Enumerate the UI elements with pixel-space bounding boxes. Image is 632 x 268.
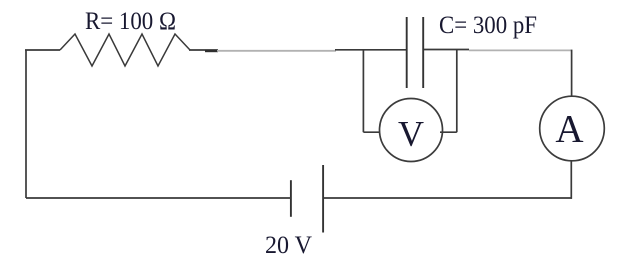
wire capacitor to right dark [424, 49, 469, 51]
wire voltmeter right stub [440, 131, 457, 133]
svg-text:A: A [555, 108, 583, 151]
svg-text:20 V: 20 V [265, 232, 312, 259]
wire right vertical lower [570, 161, 572, 199]
voltmeter V1 circle [380, 99, 443, 162]
wire left vertical [25, 50, 27, 198]
wire bottom right horizontal [323, 197, 572, 199]
svg-text:V: V [398, 113, 424, 153]
wire voltmeter right branch vertical [456, 50, 458, 132]
svg-text:R= 100 Ω: R= 100 Ω [85, 8, 176, 35]
wire top middle dark segment [189, 49, 218, 51]
wire top dark thick overlap [205, 50, 218, 52]
capacitor C1 right plate [422, 17, 424, 88]
capacitor C1 left plate [406, 17, 408, 88]
wire bottom left horizontal [26, 197, 291, 199]
wire voltmeter left stub [363, 131, 379, 133]
battery B1 short plate [290, 180, 292, 217]
svg-text:C= 300 pF: C= 300 pF [439, 12, 537, 39]
wire top light gray segment [217, 50, 336, 52]
wire top right light gray segment [469, 49, 571, 51]
battery B1 long plate [322, 165, 324, 233]
wire voltmeter left branch vertical [362, 50, 364, 132]
ammeter A1 circle [540, 96, 605, 161]
wire right vertical upper [571, 50, 573, 97]
wire top dark to capacitor [335, 49, 406, 51]
resistor R1 zigzag [60, 34, 190, 66]
wire top-left horizontal [25, 49, 60, 51]
